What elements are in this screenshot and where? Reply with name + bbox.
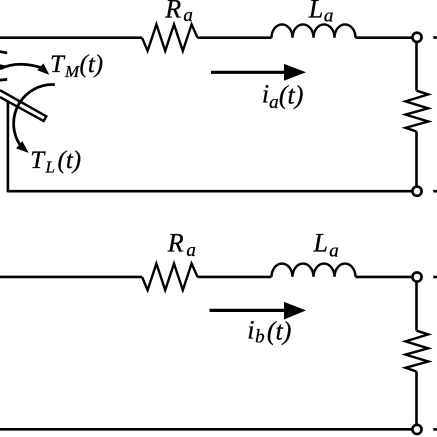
- resistor R4 (load resistor, circuit 2, vertical): [406, 331, 429, 372]
- inductor L1 (L_a, top): [272, 24, 356, 37]
- svg-text:R: R: [164, 0, 181, 23]
- wire right vertical (top circuit, node to resistor): [415, 42, 418, 90]
- svg-text:L: L: [45, 158, 55, 177]
- wire right vertical lower (circuit 2): [415, 372, 418, 425]
- resistor R2 (load resistor, top circuit, vertical): [406, 91, 429, 132]
- current arrow i_a: [211, 71, 287, 74]
- node terminal top-right (circuit 2): [412, 272, 421, 281]
- svg-text:L: L: [313, 228, 328, 257]
- wire right vertical (circuit 2, node to resistor): [415, 282, 418, 331]
- svg-text:a: a: [269, 92, 279, 113]
- motor brush dash upper (left edge): [0, 52, 7, 53]
- svg-text:(t): (t): [279, 81, 304, 110]
- svg-text:L: L: [308, 0, 323, 24]
- resistor R3 (R_a, circuit 2): [142, 264, 198, 291]
- dash at right edge (bottom terminal, circuit 2): [433, 428, 437, 431]
- wire top-left (second circuit top wire): [0, 276, 142, 279]
- svg-text:a: a: [324, 6, 334, 27]
- svg-text:R: R: [167, 228, 184, 257]
- svg-text:T: T: [50, 51, 66, 78]
- current arrow i_b: [210, 309, 287, 312]
- node terminal top-right (open circle): [412, 33, 421, 42]
- inductor L2 (L_a, bottom): [272, 264, 356, 277]
- node terminal bottom-right of top circuit: [412, 187, 421, 196]
- wire top-left (armature top wire from motor to resistor): [0, 36, 142, 39]
- dash at right edge (top terminal, circuit 2): [433, 276, 437, 279]
- dash at right edge (top terminal): [433, 36, 437, 39]
- svg-text:b: b: [255, 326, 265, 347]
- torque arrow T_L (curved arc): [14, 85, 55, 145]
- svg-text:T: T: [30, 147, 46, 174]
- wire from L2 to node: [356, 276, 413, 279]
- svg-text:(t): (t): [58, 147, 82, 174]
- wire right vertical lower (top circuit): [415, 132, 418, 187]
- wire bottom (circuit 2 return wire): [0, 428, 412, 431]
- svg-text:a: a: [329, 240, 339, 261]
- wire between R3 and L2: [198, 276, 272, 279]
- resistor R1 (R_a, armature of motor 1): [142, 24, 198, 51]
- svg-text:i: i: [262, 80, 269, 109]
- motor brush dash lower (left edge): [0, 78, 7, 81]
- svg-text:(t): (t): [267, 317, 292, 346]
- wire from L1 to node: [356, 36, 413, 39]
- svg-text:a: a: [183, 5, 193, 26]
- node terminal bottom-right (circuit 2): [412, 425, 421, 434]
- svg-text:M: M: [64, 62, 80, 81]
- wire left vertical (top circuit, motor to return wire): [7, 101, 10, 193]
- wire bottom (top circuit return wire): [8, 190, 412, 193]
- motor brush dash middle (left edge): [0, 65, 5, 66]
- svg-text:a: a: [186, 240, 196, 261]
- svg-text:(t): (t): [80, 51, 104, 78]
- motor shaft bar (diagonal): [0, 90, 46, 121]
- wire between R1 and L1: [198, 36, 272, 39]
- dash at right edge (bottom terminal of top circuit): [433, 190, 437, 193]
- svg-text:i: i: [247, 316, 254, 345]
- torque arrow T_M (curved): [0, 64, 41, 69]
